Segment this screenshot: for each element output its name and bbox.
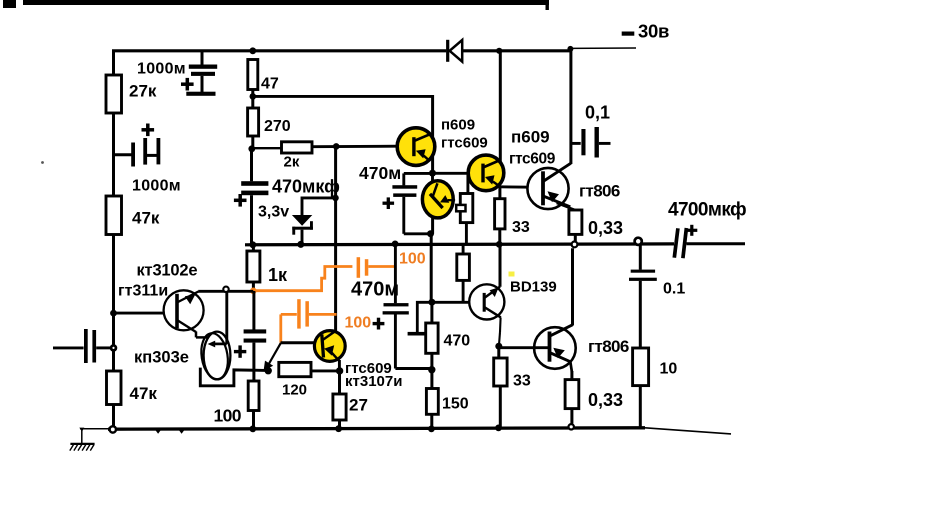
svg-text:кп303е: кп303е [134, 349, 189, 367]
node ground 100 junction [249, 426, 256, 433]
wire zener branch [302, 196, 336, 199]
wire BD139 collector to rail [499, 245, 502, 287]
capacitor emitter bypass [252, 291, 255, 330]
node ground 27 junction [335, 425, 342, 432]
svg-text:470м: 470м [359, 163, 401, 183]
node driver A emitter junction [429, 170, 436, 177]
svg-text:27к: 27к [129, 82, 157, 101]
wire base gtc609 [281, 341, 316, 344]
svg-text:470мкф: 470мкф [272, 177, 340, 197]
svg-text:1к: 1к [268, 265, 288, 285]
zener diode 3.3v [292, 215, 312, 226]
ground rail tick marks [156, 430, 161, 433]
svg-text:100: 100 [399, 251, 426, 268]
svg-text:гтс609: гтс609 [509, 150, 556, 167]
transistor VT3 gtc609/kt3107i [314, 331, 345, 362]
wire left column upper [112, 51, 115, 75]
capacitor 0.1 bootstrap [571, 142, 581, 145]
svg-text:10: 10 [660, 361, 678, 378]
node VT5/cap junction [427, 230, 434, 237]
svg-text:1000м: 1000м [137, 61, 186, 78]
svg-text:470м: 470м [351, 279, 399, 301]
node junction rail/driver collector [496, 48, 502, 54]
wire BD139 emitter [499, 317, 502, 332]
svg-text:0,33: 0,33 [588, 390, 623, 410]
wire driver B emitter to output base [500, 185, 543, 188]
wire JFET source bracket [200, 368, 265, 386]
resistor 1k [252, 245, 255, 251]
node zener tap [332, 195, 339, 202]
transistor VT6 p609/gtc609 driver B [468, 155, 504, 191]
wire output rail [245, 242, 674, 246]
node feedback takeoff (orange) [250, 288, 257, 295]
wire left column mid [112, 113, 115, 196]
svg-text:47к: 47к [130, 384, 158, 403]
wire VT7 collector to rail [569, 48, 572, 164]
wire base driver B [433, 172, 484, 175]
transistor VT9 BD139 [469, 284, 504, 319]
node 270/2k/cap junction [248, 145, 255, 152]
node BD139 base junction [428, 299, 435, 306]
capacitor 470m coupling [394, 244, 397, 303]
svg-text:гт806: гт806 [579, 182, 620, 201]
svg-text:150: 150 [442, 396, 469, 413]
svg-text:30в: 30в [638, 21, 669, 42]
node BD139 emitter junction [495, 343, 502, 350]
resistor 270 [248, 108, 259, 136]
capacitor 100 feedback lower (orange) [279, 314, 282, 342]
transistor VT2 kp303e JFET [204, 332, 231, 380]
resistor 470 [430, 302, 433, 323]
capacitor 4700mkf output [674, 228, 678, 257]
resistor 47 [248, 60, 258, 90]
wire left column lower [112, 235, 115, 430]
node rail/1k junction [250, 241, 257, 248]
node ground rail left (open) [110, 426, 116, 432]
transistor VT8 gt806 lower [534, 327, 576, 369]
wire gtc609 emitter [338, 360, 341, 371]
annotation arrow to shunt node [269, 343, 281, 365]
capacitor 0.1 zobel [639, 245, 642, 269]
resistor 2k (horizontal) [252, 147, 282, 149]
wire base KT3102 [114, 312, 177, 315]
svg-text:гтс609: гтс609 [441, 134, 488, 151]
wire KT3102 emitter to JFET [195, 332, 198, 338]
wire thin rail extension to 30v terminal [571, 47, 636, 49]
svg-text:гт806: гт806 [588, 337, 629, 356]
svg-text:0,1: 0,1 [585, 103, 610, 123]
svg-text:270: 270 [264, 118, 291, 135]
stray mark left [41, 161, 44, 164]
svg-text:100: 100 [345, 315, 372, 332]
node shunt junction [265, 367, 272, 374]
node ground 150 junction [428, 426, 435, 433]
wire base BD139 [431, 301, 484, 304]
node rail/33 junction [496, 241, 503, 248]
node zener/rail junction [297, 241, 304, 248]
wire 120 to emitter node [311, 369, 340, 372]
transistor VT7 gt806 upper [527, 168, 568, 209]
resistor bias upper [466, 173, 469, 193]
svg-text:1000м: 1000м [132, 178, 181, 195]
svg-text:3,3v: 3,3v [258, 204, 289, 221]
resistor 33 upper [498, 187, 501, 199]
node rail crossing 0.33 (open) [572, 242, 578, 248]
wire VT5 to node [431, 216, 434, 234]
svg-text:470: 470 [444, 333, 471, 350]
capacitor input coupling [53, 346, 84, 349]
resistor 0.33 lower [570, 362, 572, 373]
resistor 27k [106, 75, 122, 113]
node ground 0.33 (open) [569, 424, 574, 429]
wire ground rail [108, 428, 645, 429]
node base junction [110, 310, 117, 317]
svg-text:п609: п609 [511, 128, 550, 147]
svg-text:33: 33 [513, 373, 531, 390]
transistor VT5 (rotated) [431, 171, 434, 183]
node rail/feedback junction [392, 241, 399, 248]
resistor 33 lower [497, 346, 500, 358]
node emitter/120 junction [336, 367, 343, 374]
svg-text:4700мкф: 4700мкф [668, 200, 746, 221]
wire +30V rail right segment [462, 49, 571, 52]
svg-text:гт311и: гт311и [118, 283, 168, 300]
resistor 47k lower [107, 371, 122, 405]
svg-text:47: 47 [261, 76, 279, 93]
node 47/270 junction [251, 90, 254, 109]
capacitor 100 feedback upper (orange) [357, 257, 361, 278]
ground symbol [80, 428, 109, 430]
svg-text:100: 100 [214, 406, 242, 426]
resistor 100 [248, 381, 259, 411]
wire VAS collector vertical [334, 146, 337, 331]
capacitor 470mkf [250, 149, 253, 182]
wire +30V rail left segment [112, 49, 446, 52]
diode D1 on supply rail [448, 40, 463, 62]
wire node to rail crossing [430, 234, 433, 303]
svg-text:0,33: 0,33 [588, 218, 623, 238]
wire stub with end bar [417, 302, 431, 332]
svg-text:120: 120 [282, 382, 307, 399]
resistor 120 (horizontal) [279, 362, 311, 376]
node 2k wire junction [333, 143, 340, 150]
capacitor 1000m supply filter [201, 51, 204, 65]
resistor bias lower [462, 245, 465, 254]
svg-text:2к: 2к [284, 154, 300, 171]
svg-text:47к: 47к [132, 209, 160, 228]
resistor 27 [338, 371, 341, 394]
wire orange feedback upper [253, 267, 352, 291]
svg-text:0.1: 0.1 [663, 281, 685, 298]
node ground 33 junction [495, 425, 502, 432]
node junction rail/output collector [567, 46, 573, 52]
wire JFET drain [225, 292, 228, 344]
svg-text:27: 27 [349, 396, 368, 415]
label 30в supply [622, 32, 635, 36]
top-left corner mark [3, 0, 16, 8]
svg-text:BD139: BD139 [510, 279, 557, 296]
svg-text:33: 33 [512, 219, 530, 236]
node rail zobel tap (open) [635, 238, 642, 245]
top border line [23, 0, 549, 5]
node junction rail/47 resistor [249, 47, 256, 54]
resistor 150 [426, 389, 438, 415]
wire 270 to node [251, 136, 254, 149]
resistor 47k upper [106, 196, 122, 235]
resistor 0.33 upper [557, 203, 576, 210]
capacitor 470m driver bypass [404, 172, 430, 175]
wire to driver base [253, 95, 433, 98]
resistor 10 zobel [633, 348, 649, 386]
svg-text:кт3107и: кт3107и [345, 373, 402, 390]
transistor VT1 kt3102e/gt311i [164, 290, 204, 330]
wire VT8 collector [571, 248, 574, 325]
node input junction [110, 344, 118, 352]
svg-text:кт3102е: кт3102е [137, 262, 198, 280]
wire driver B collector to rail [499, 51, 502, 162]
node 470/150 junction [428, 366, 435, 373]
capacitor 1000m input-bias (series horizontal) [114, 153, 133, 156]
node drain junction (open circle) [223, 287, 228, 292]
wire KT3102 collector [198, 290, 253, 293]
transistor VT4 p609/gtc609 driver A [397, 128, 435, 166]
wire 2k to VAS collector line [312, 145, 414, 148]
svg-text:п609: п609 [441, 116, 475, 133]
wire base VT8 [499, 346, 550, 349]
